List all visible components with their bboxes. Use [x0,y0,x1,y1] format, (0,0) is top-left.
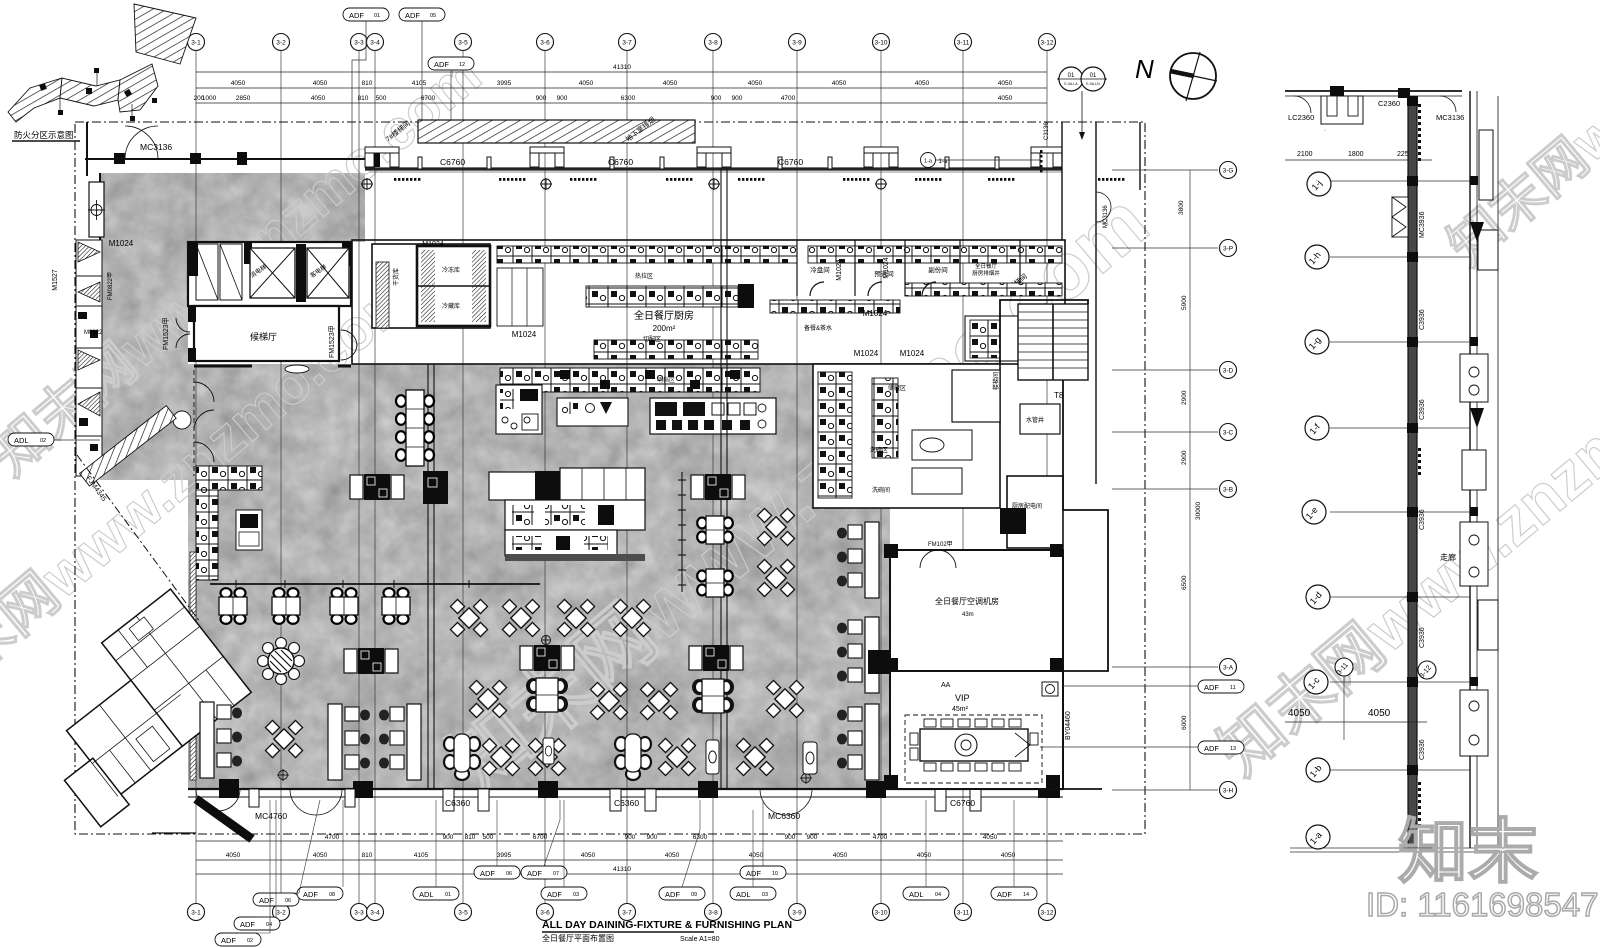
svg-text:ADF: ADF [259,896,274,905]
svg-text:冷藏库: 冷藏库 [442,302,460,310]
svg-text:C2360: C2360 [1378,99,1400,108]
svg-text:4050: 4050 [231,80,246,87]
svg-text:热拉区: 热拉区 [635,272,653,280]
svg-text:3-C: 3-C [1223,430,1234,437]
svg-text:900: 900 [536,95,547,102]
diamond tables row 2 [469,680,506,717]
svg-text:C6760: C6760 [440,157,465,167]
svg-text:06: 06 [506,871,512,877]
service station left [196,466,262,580]
bottom wall columns [219,779,1060,798]
svg-text:1-a: 1-a [924,159,933,165]
svg-text:3-8: 3-8 [708,910,718,917]
svg-text:900: 900 [732,95,743,102]
round table 8 seats [258,638,305,685]
svg-text:C6760: C6760 [778,157,803,167]
wall columns left segment [114,152,380,167]
svg-text:43m: 43m [962,612,974,618]
svg-text:ADF: ADF [547,890,562,899]
svg-text:6300: 6300 [693,834,708,841]
svg-text:M1024: M1024 [512,330,537,339]
svg-text:2850: 2850 [236,95,251,102]
oval 6-seat tables [526,678,568,712]
bottom window labels [255,798,975,821]
drawing flag diamonds 01/01 [1057,67,1107,140]
svg-text:AA: AA [941,682,951,689]
svg-text:ID: 1161698547: ID: 1161698547 [1366,886,1598,923]
right-side fixtures [1460,130,1498,756]
diamond tables right cluster [757,508,794,545]
entry door arc MC3136 [125,126,158,159]
ADF tag top 01 [343,8,474,70]
svg-text:3-3: 3-3 [354,910,364,917]
right axis lines + bubbles [1112,170,1218,790]
svg-text:4050: 4050 [665,852,680,859]
buffet island center [489,468,645,645]
svg-text:3-12: 3-12 [1040,910,1053,917]
corridor main wall [1408,96,1417,848]
svg-text:3-10: 3-10 [874,40,887,47]
svg-text:4050: 4050 [1368,708,1391,719]
svg-text:4105: 4105 [414,852,429,859]
svg-text:ADL: ADL [909,890,924,899]
svg-text:3-12: 3-12 [1040,40,1053,47]
ADF tags right [1198,680,1244,754]
svg-text:FM0822甲: FM0822甲 [107,272,114,300]
znzmo logo bottom-right [1366,813,1598,923]
booth column pairs [344,648,398,674]
svg-text:900: 900 [807,834,818,841]
axis survey markers [361,178,887,190]
svg-text:6700: 6700 [533,834,548,841]
svg-text:ADF: ADF [303,890,318,899]
svg-text:C3936: C3936 [1419,739,1426,760]
svg-text:4050: 4050 [748,80,763,87]
waiter station ovals [706,740,817,774]
svg-text:ADL: ADL [736,890,751,899]
svg-text:3-1: 3-1 [191,40,201,47]
svg-text:3-7: 3-7 [622,40,632,47]
svg-text:04: 04 [935,892,941,898]
svg-text:储藏区: 储藏区 [888,384,906,392]
svg-text:810: 810 [465,834,476,841]
diagonal wall bottom-left [196,799,252,839]
svg-text:ADL: ADL [419,890,434,899]
svg-text:4050: 4050 [915,80,930,87]
svg-text:ADF: ADF [1204,744,1219,753]
svg-text:ADF: ADF [240,920,255,929]
svg-text:4050: 4050 [998,80,1013,87]
concrete floor slab [95,170,895,795]
ADF tags bottom row [215,866,1037,946]
staircase [1018,304,1088,400]
svg-text:FM1523甲: FM1523甲 [162,317,170,350]
svg-text:6300: 6300 [621,95,636,102]
svg-text:3-5: 3-5 [458,910,468,917]
svg-text:ADF: ADF [349,11,364,20]
svg-text:6500: 6500 [1181,575,1188,590]
top tag leaders [352,21,451,160]
window post assemblies on top wall [365,147,1062,169]
svg-text:ADF: ADF [997,890,1012,899]
svg-text:2900: 2900 [1181,390,1188,405]
svg-text:03: 03 [762,892,768,898]
plan dashed boundary [75,122,1145,834]
svg-text:M1024: M1024 [854,349,879,358]
kitchen power room [1007,476,1063,548]
svg-text:06: 06 [285,898,291,904]
svg-text:3-2: 3-2 [276,910,286,917]
top-left fixture right plan [1321,96,1363,124]
svg-text:01: 01 [1090,73,1097,79]
corridor window labels vertical [1419,211,1426,760]
svg-text:3-G: 3-G [1223,168,1234,175]
svg-text:Scale A1=80: Scale A1=80 [680,936,720,943]
row of 4-seat tables [219,588,247,624]
top dims right plan [1285,159,1432,161]
svg-text:41310: 41310 [613,64,631,71]
svg-text:2100: 2100 [1297,151,1313,158]
svg-text:3-2: 3-2 [276,40,286,47]
right wall pair [1469,91,1471,848]
svg-text:MC4760: MC4760 [255,811,287,821]
svg-text:05: 05 [430,13,436,19]
svg-text:4050: 4050 [749,852,764,859]
svg-text:4050: 4050 [579,80,594,87]
svg-text:MC6360: MC6360 [768,811,800,821]
svg-text:900: 900 [785,834,796,841]
svg-text:12: 12 [459,62,465,68]
threshold dot strips [394,178,1124,181]
hatched strip annex [80,406,177,486]
pipe shaft room [1020,404,1060,434]
svg-text:900: 900 [625,834,636,841]
svg-text:M1024: M1024 [900,349,925,358]
svg-text:ADF: ADF [434,60,449,69]
window labels top band [140,142,803,167]
banquette strips left [200,702,242,778]
svg-text:500: 500 [483,834,494,841]
svg-text:900: 900 [647,834,658,841]
svg-text:1800: 1800 [1348,151,1364,158]
svg-text:11: 11 [1230,685,1236,691]
svg-text:全日餐厅空调机房: 全日餐厅空调机房 [935,596,999,606]
svg-text:30000: 30000 [1195,502,1202,520]
svg-text:ADF: ADF [221,936,236,945]
svg-text:切配区: 切配区 [643,336,661,343]
svg-text:01: 01 [445,892,451,898]
axis bubbles bottom [188,904,1056,921]
svg-text:3995: 3995 [497,80,512,87]
svg-text:10: 10 [772,871,778,877]
svg-text:3-11: 3-11 [957,910,970,917]
svg-text:4050: 4050 [998,95,1013,102]
svg-text:4050: 4050 [581,852,596,859]
svg-text:4050: 4050 [1288,708,1311,719]
svg-text:全日餐厅厨房: 全日餐厅厨房 [634,309,694,322]
aisle rail horizontal [210,583,540,585]
svg-text:M1024: M1024 [836,259,843,281]
svg-text:FM1523甲: FM1523甲 [328,325,336,358]
svg-text:ADL: ADL [14,436,29,445]
top dimension lines [196,72,1047,103]
axis bubbles top [188,34,1056,51]
title block [542,919,792,943]
axis lines + bubbles left of corridor [1290,181,1528,852]
dining furniture: long vertical tables [396,390,434,466]
svg-text:03: 03 [573,892,579,898]
svg-text:6700: 6700 [421,95,436,102]
svg-text:3-8: 3-8 [708,40,718,47]
axis grid vertical lines [196,50,1047,903]
svg-text:厨房排烟井: 厨房排烟井 [972,269,1000,277]
left shaft rooms column [76,240,102,476]
svg-text:3-10: 3-10 [874,910,887,917]
svg-text:LC2360: LC2360 [1288,113,1314,122]
svg-text:ADF: ADF [665,890,680,899]
left corridor doors below hall [173,370,214,476]
svg-text:4050: 4050 [833,852,848,859]
svg-text:4050: 4050 [832,80,847,87]
svg-text:900: 900 [443,834,454,841]
svg-text:备餐&茶水: 备餐&茶水 [804,324,832,332]
svg-text:走廊: 走廊 [1440,552,1456,562]
svg-text:防火分区示意图: 防火分区示意图 [14,130,74,140]
svg-text:45m²: 45m² [952,706,969,713]
svg-text:BY04460: BY04460 [1065,711,1072,740]
svg-text:810: 810 [358,95,369,102]
svg-text:3-B: 3-B [1223,487,1233,494]
svg-text:810: 810 [362,852,373,859]
svg-text:09: 09 [691,892,697,898]
svg-text:3-9: 3-9 [792,910,802,917]
svg-text:13: 13 [1230,746,1236,752]
bottom exterior wall [188,789,1063,797]
svg-text:3-P: 3-P [1223,246,1233,253]
svg-text:4700: 4700 [873,834,888,841]
wall device left [89,182,104,237]
svg-text:FM102甲: FM102甲 [928,541,953,548]
dry store + freezer rooms [372,244,490,328]
svg-text:4700: 4700 [325,834,340,841]
corridor black column markers [1407,96,1478,775]
svg-text:楼梯间: 楼梯间 [992,372,1000,390]
svg-text:副份间: 副份间 [928,265,948,274]
corridor door MC3936 [1392,197,1408,237]
kitchen inner partitions [797,240,1020,296]
svg-text:MC3936: MC3936 [1419,211,1426,238]
svg-text:02: 02 [247,938,253,944]
kitchen equipment bands [497,246,1062,361]
aisle double line vertical [428,168,727,790]
svg-text:3-4: 3-4 [370,910,380,917]
svg-text:E-0A-LN: E-0A-LN [1086,82,1100,86]
svg-text:4050: 4050 [983,834,998,841]
svg-text:4050: 4050 [226,852,241,859]
svg-text:01: 01 [374,13,380,19]
svg-text:M0822: M0822 [84,330,103,336]
svg-text:洗碗间: 洗碗间 [872,486,890,494]
svg-text:900: 900 [711,95,722,102]
svg-text:冷冻库: 冷冻库 [442,266,460,274]
svg-text:E-0A-LA: E-0A-LA [1064,82,1078,86]
svg-text:4050: 4050 [1001,852,1016,859]
svg-text:MC3136: MC3136 [1436,113,1464,122]
bottom door arcs [196,789,812,815]
svg-text:C3936: C3936 [1419,627,1426,648]
svg-text:M1024: M1024 [109,239,134,248]
svg-text:3-6: 3-6 [540,40,550,47]
hatched canopy strip top [418,120,695,143]
svg-text:ADF: ADF [746,869,761,878]
svg-text:01: 01 [1068,73,1075,79]
svg-text:C6360: C6360 [614,798,639,808]
svg-text:2900: 2900 [1181,450,1188,465]
hot cooking counter [650,398,776,434]
svg-text:41310: 41310 [613,866,631,873]
svg-text:4700: 4700 [781,95,796,102]
svg-text:N: N [1135,54,1154,84]
svg-text:M1527: M1527 [52,269,59,291]
svg-text:C6760: C6760 [608,157,633,167]
svg-text:M1024: M1024 [422,241,444,248]
svg-text:冷盘间: 冷盘间 [810,265,830,274]
svg-text:水管井: 水管井 [1026,416,1044,424]
right exterior stepped wall [1000,300,1108,789]
svg-text:3-11: 3-11 [957,40,970,47]
svg-text:3800: 3800 [1178,200,1185,215]
corridor inner line [370,171,1062,173]
diamond tables row 3 [482,738,519,775]
svg-text:3-4: 3-4 [370,40,380,47]
left exterior wall [87,122,100,470]
svg-text:5900: 5900 [1181,295,1188,310]
svg-text:候梯厅: 候梯厅 [250,331,277,342]
svg-text:干货库: 干货库 [392,268,400,286]
svg-text:200m²: 200m² [653,324,676,333]
svg-text:3-6: 3-6 [540,910,550,917]
left wall hatch strip [190,552,196,780]
svg-text:C3136: C3136 [1044,122,1050,140]
svg-text:C3936: C3936 [1419,309,1426,330]
window mullion legs [249,789,981,811]
angled annex building lower-left [12,589,260,827]
vertical pair tables right-center [697,516,733,544]
svg-text:ALL DAY DAINING-FIXTURE & FURN: ALL DAY DAINING-FIXTURE & FURNISHING PLA… [542,919,792,931]
svg-text:3-7: 3-7 [622,910,632,917]
elevator block [188,242,351,306]
svg-text:4050: 4050 [917,852,932,859]
svg-text:ADF: ADF [527,869,542,878]
right end corridor walls [1062,122,1140,484]
banquette strips right edge [837,522,879,598]
svg-text:3-1: 3-1 [191,910,201,917]
svg-text:3-9: 3-9 [792,40,802,47]
svg-text:3-A: 3-A [1223,665,1234,672]
svg-text:知末: 知末 [1398,813,1538,891]
right service block walls [813,364,1000,508]
kitchen outline [352,240,1065,364]
svg-text:4050: 4050 [663,80,678,87]
svg-text:洗碗区: 洗碗区 [870,446,888,454]
svg-text:C6760: C6760 [950,798,975,808]
kitchen labels [52,239,1000,358]
ADL tag left [8,433,54,446]
tag leader lines [238,800,1014,933]
svg-text:6000: 6000 [1181,715,1188,730]
svg-text:3-D: 3-D [1223,368,1234,375]
svg-text:4050: 4050 [311,95,326,102]
svg-text:900: 900 [557,95,568,102]
north arrow compass [1135,52,1217,101]
svg-text:4105: 4105 [412,80,427,87]
svg-text:ADF: ADF [405,11,420,20]
svg-text:M1024: M1024 [883,257,890,279]
svg-text:14: 14 [1023,892,1029,898]
top exterior wall band [85,159,1062,169]
bottom dimension lines [196,841,1063,874]
svg-text:C3936: C3936 [1419,509,1426,530]
svg-text:07: 07 [553,871,559,877]
svg-text:3995: 3995 [497,852,512,859]
svg-text:500: 500 [376,95,387,102]
svg-text:3-H: 3-H [1223,788,1234,795]
svg-text:810: 810 [362,80,373,87]
svg-text:08: 08 [329,892,335,898]
svg-text:4050: 4050 [313,852,328,859]
svg-text:明档区: 明档区 [657,376,675,384]
VIP room [884,671,1063,789]
top wall right plan [1285,90,1462,92]
elevator hall [162,306,357,373]
svg-text:C6360: C6360 [445,798,470,808]
svg-text:VIP: VIP [955,693,970,703]
3-11 / 3-12 bubbles [1335,658,1353,676]
svg-text:ADF: ADF [480,869,495,878]
fire-zone key diagram top-left [8,4,196,141]
diamond tables row 1 [450,599,487,636]
svg-text:全日餐厅: 全日餐厅 [975,262,998,270]
queue rail [678,472,686,592]
svg-text:4050: 4050 [313,80,328,87]
svg-text:04: 04 [266,922,272,928]
svg-text:ADF: ADF [1204,683,1219,692]
svg-text:1000: 1000 [202,95,217,102]
svg-text:02: 02 [40,438,46,444]
svg-text:C3936: C3936 [1419,399,1426,420]
svg-text:3-5: 3-5 [458,40,468,47]
AHU machine room [884,541,1063,672]
svg-text:3-3: 3-3 [354,40,364,47]
svg-text:M1024: M1024 [863,309,888,318]
svg-text:全日餐厅平面布置图: 全日餐厅平面布置图 [542,933,614,943]
food display counter in dining [500,368,760,392]
